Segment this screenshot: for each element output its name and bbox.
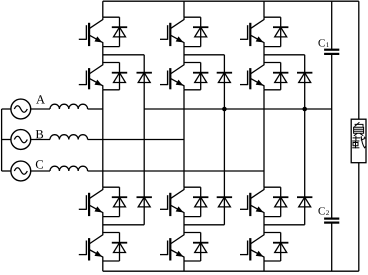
wire Q13 emitter rail <box>103 216 120 218</box>
wire Q32 emitter rail <box>264 89 281 91</box>
wire leg3 upper clamp branch <box>264 55 305 74</box>
wire leg2 Q21/Q22 junction vertical <box>183 47 185 63</box>
wire source B left lead <box>2 139 11 141</box>
inductor LC <box>50 166 88 171</box>
diode D25 upper clamp <box>217 72 232 84</box>
wire Q14 collector rail <box>103 232 120 234</box>
wire Q12 emitter rail <box>103 89 120 91</box>
wire sources common left bus <box>1 109 3 171</box>
diode D23 antiparallel with Q23 <box>193 187 208 216</box>
diode D21 antiparallel with Q21 <box>193 17 208 46</box>
capacitor C2 <box>324 219 339 223</box>
capacitor C1 <box>324 50 339 54</box>
wire source C left lead <box>2 170 11 172</box>
wire leg3 lower clamp branch <box>264 207 305 225</box>
wire DC+ to C1 <box>331 1 333 50</box>
wire Q23 emitter rail <box>184 216 201 218</box>
wire phase A to leg1 <box>88 108 103 110</box>
wire leg1 upper clamp branch <box>103 55 144 74</box>
wire leg2 DC+ to Q21 collector <box>183 1 185 17</box>
transistor Q12 (IGBT) <box>79 63 103 90</box>
wire C1 to neutral to C2 <box>331 54 333 219</box>
wire load to DC- <box>358 163 360 272</box>
transistor Q13 (IGBT) <box>79 187 103 216</box>
diode D35 upper clamp <box>297 72 312 84</box>
wire Q23 collector rail <box>184 186 201 188</box>
wire leg3 Q33/Q34 junction vertical <box>263 217 265 233</box>
wire leg1 phase A node vertical (Q12 emitter to Q13 collector) <box>102 90 104 187</box>
diode D11 antiparallel with Q11 <box>112 17 127 46</box>
wire Q22 emitter rail <box>184 89 201 91</box>
transistor Q31 (IGBT) <box>240 17 264 46</box>
label phase B text <box>36 130 43 138</box>
wire leg1 DC+ to Q11 collector <box>102 1 104 17</box>
wire leg2 Q24 emitter to DC- <box>183 261 185 271</box>
wire leg3 Q34 emitter to DC- <box>263 261 265 271</box>
diode D31 antiparallel with Q31 <box>273 17 288 46</box>
wire leg3 Q31/Q32 junction vertical <box>263 47 265 63</box>
transistor Q34 (IGBT) <box>240 233 264 262</box>
wire leg3 clamp vertical through neutral <box>304 83 306 198</box>
diode D26 lower clamp <box>217 196 232 208</box>
wire Q33 collector rail <box>264 186 281 188</box>
wire leg1 lower clamp branch <box>103 207 144 225</box>
wire leg1 Q11/Q12 junction vertical <box>102 47 104 63</box>
diode D16 lower clamp <box>137 196 152 208</box>
node neutral junction leg2 <box>222 107 227 112</box>
wire phase B to leg2 <box>88 139 184 141</box>
wire Q21 emitter rail <box>184 46 201 48</box>
node neutral junction leg3 <box>302 107 307 112</box>
wire leg2 phase B node vertical (Q22 emitter to Q23 collector) <box>183 90 185 187</box>
diode D24 antiparallel with Q24 <box>193 233 208 262</box>
transistor Q33 (IGBT) <box>240 187 264 216</box>
wire Q24 collector rail <box>184 232 201 234</box>
transistor Q23 (IGBT) <box>160 187 184 216</box>
wire leg1 clamp vertical through neutral <box>143 83 145 198</box>
label phase C text <box>36 160 43 168</box>
wire leg1 Q13/Q14 junction vertical <box>102 217 104 233</box>
diode D15 upper clamp <box>137 72 152 84</box>
label C1 <box>318 39 328 47</box>
wire Q22 collector rail <box>184 62 201 64</box>
wire Q24 emitter rail <box>184 260 201 262</box>
wire source B to inductor <box>31 139 50 141</box>
wire DC+ to load <box>358 1 360 119</box>
wire leg2 clamp vertical through neutral <box>223 83 225 198</box>
diode D32 antiparallel with Q32 <box>273 63 288 90</box>
wire leg2 upper clamp branch <box>184 55 224 74</box>
inductor LA <box>50 104 88 109</box>
wire source C to inductor <box>31 170 50 172</box>
wire Q31 emitter rail <box>264 46 281 48</box>
wire leg1 Q14 emitter to DC- <box>102 261 104 271</box>
wire Q34 collector rail <box>264 232 281 234</box>
wire source A to inductor <box>31 108 50 110</box>
wire Q11 collector rail <box>103 16 120 18</box>
wire Q21 collector rail <box>184 16 201 18</box>
wire neutral (midpoint) line <box>144 108 332 110</box>
ac source phase C <box>11 161 31 181</box>
ac source phase A <box>11 99 31 119</box>
wire source A left lead <box>2 108 11 110</box>
transistor Q21 (IGBT) <box>160 17 184 46</box>
label C2 <box>318 207 328 215</box>
wire bottom DC- bus <box>103 270 359 272</box>
transistor Q32 (IGBT) <box>240 63 264 90</box>
wire leg3 DC+ to Q31 collector <box>263 1 265 17</box>
wire Q32 collector rail <box>264 62 281 64</box>
wire C2 to DC- <box>331 223 333 272</box>
wire Q14 emitter rail <box>103 260 120 262</box>
wire leg2 lower clamp branch <box>184 207 224 225</box>
label phase A text <box>36 95 45 103</box>
transistor Q22 (IGBT) <box>160 63 184 90</box>
ac source phase B <box>11 130 31 150</box>
diode D22 antiparallel with Q22 <box>193 63 208 90</box>
wire top DC+ bus <box>103 0 359 2</box>
wire Q31 collector rail <box>264 16 281 18</box>
transistor Q14 (IGBT) <box>79 233 103 262</box>
diode D13 antiparallel with Q13 <box>112 187 127 216</box>
diode D12 antiparallel with Q12 <box>112 63 127 90</box>
wire Q13 collector rail <box>103 186 120 188</box>
wire leg2 Q23/Q24 junction vertical <box>183 217 185 233</box>
diode D14 antiparallel with Q14 <box>112 233 127 262</box>
transistor Q24 (IGBT) <box>160 233 184 262</box>
transistor Q11 (IGBT) <box>79 17 103 46</box>
wire phase C to leg3 <box>88 170 264 172</box>
wire Q11 emitter rail <box>103 46 120 48</box>
diode D36 lower clamp <box>297 196 312 208</box>
load box (negative-load 负载) <box>351 119 366 163</box>
wire Q12 collector rail <box>103 62 120 64</box>
wire leg3 phase C node vertical (Q32 emitter to Q33 collector) <box>263 90 265 187</box>
diode D34 antiparallel with Q34 <box>273 233 288 262</box>
inductor LB <box>50 135 88 140</box>
wire Q33 emitter rail <box>264 216 281 218</box>
wire Q34 emitter rail <box>264 260 281 262</box>
diode D33 antiparallel with Q33 <box>273 187 288 216</box>
